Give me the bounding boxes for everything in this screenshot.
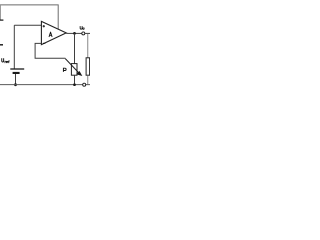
op-amp gain label A (49, 32, 52, 37)
op-amp minus input marker (43, 42, 45, 44)
wire left edge stub (0, 5, 1, 20)
junction output to potentiometer (73, 32, 76, 35)
wire potentiometer top lead (74, 33, 76, 63)
wire op-amp output (66, 32, 82, 34)
battery plate (cut off, left edge, lower) (0, 44, 3, 46)
wire top supply rail (0, 5, 58, 29)
wire resistor R top lead (87, 33, 89, 57)
potentiometer P body (71, 64, 77, 76)
op-amp U1 triangle (41, 21, 66, 44)
label P (63, 68, 66, 72)
battery U_ref short thick plate (13, 72, 20, 74)
label Uref (2, 58, 4, 62)
wire inverting input feedback loop (35, 43, 65, 58)
wire Uref feed vertical (13, 25, 15, 68)
op-amp plus input marker (43, 25, 45, 27)
label Ua (80, 26, 82, 29)
junction battery-ground (14, 83, 17, 86)
wire potentiometer bottom lead (74, 75, 76, 84)
terminal ground rail output (83, 83, 86, 86)
wire bottom ground rail (0, 84, 90, 86)
junction potentiometer-ground (73, 83, 76, 86)
wire resistor R bottom lead (87, 75, 89, 84)
battery U_ref long plate (10, 68, 24, 70)
wire battery to ground rail (15, 74, 17, 85)
svg-text:ref: ref (4, 59, 10, 64)
potentiometer wiper arrow (65, 59, 78, 73)
battery plate (cut off, left edge, upper) (0, 19, 3, 21)
wire output to right edge (85, 32, 90, 34)
wire non-inverting input (14, 24, 41, 26)
resistor R body (cut off at right edge) (86, 58, 90, 75)
terminal Ua (82, 32, 85, 35)
